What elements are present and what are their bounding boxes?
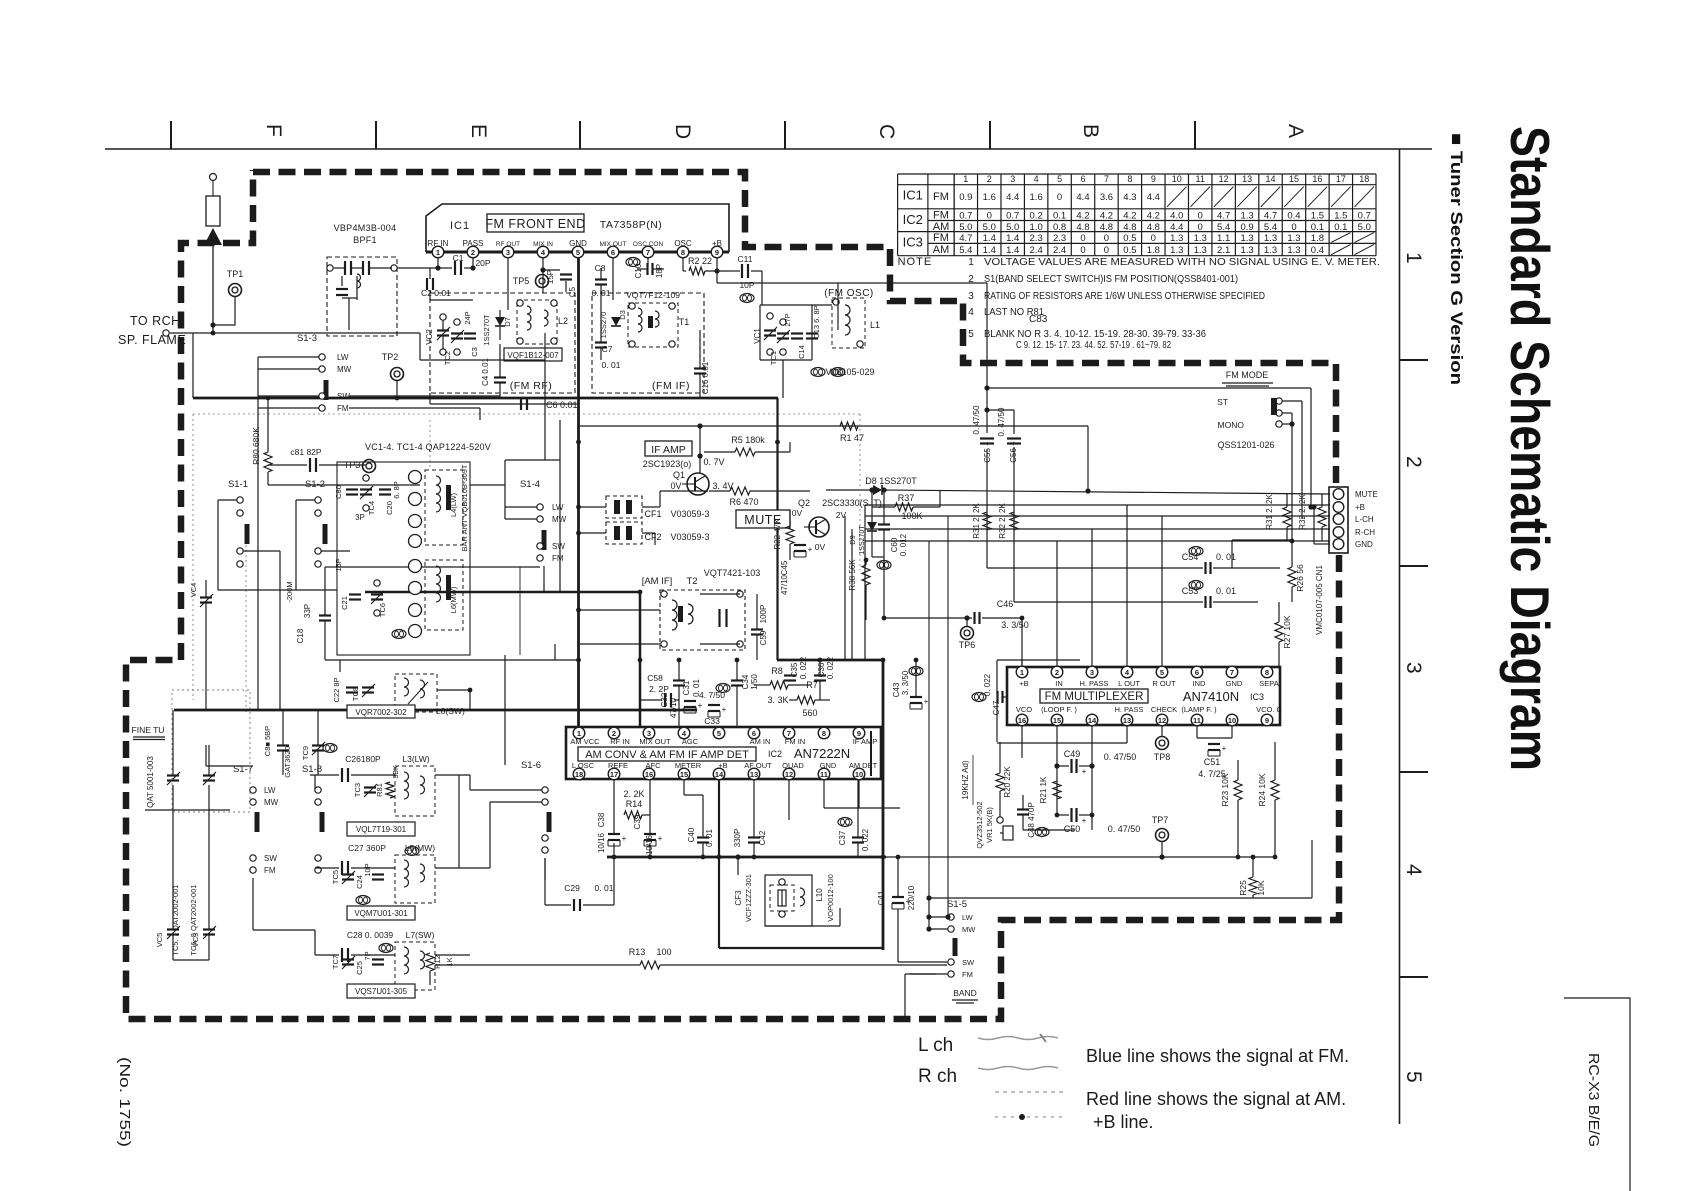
svg-text:FM MULTIPLEXER: FM MULTIPLEXER	[1045, 691, 1144, 703]
svg-text:R2 22: R2 22	[688, 256, 712, 266]
svg-text:Standard Schematic Diagram: Standard Schematic Diagram	[1499, 126, 1561, 771]
svg-text:S1(BAND SELECT SWITCH)IS FM PO: S1(BAND SELECT SWITCH)IS FM POSITION(QSS…	[984, 274, 1238, 285]
wire s1-3 right2	[349, 407, 480, 409]
svg-text:VQR7002-302: VQR7002-302	[355, 708, 407, 717]
wire	[206, 765, 253, 767]
tuning gang contacts	[409, 471, 422, 484]
svg-text:17: 17	[1336, 174, 1346, 184]
svg-text:TC4: TC4	[367, 501, 376, 515]
svg-text:4. 7/50: 4. 7/50	[699, 690, 725, 700]
svg-text:NOTE: NOTE	[898, 256, 933, 268]
coil L4 bar antenna	[425, 470, 463, 545]
svg-text:5: 5	[1057, 174, 1062, 184]
svg-text:47/10: 47/10	[780, 574, 789, 595]
svg-text:R37: R37	[898, 493, 915, 503]
svg-text:QSS1201-026: QSS1201-026	[1217, 440, 1274, 450]
svg-text:0. 47/50: 0. 47/50	[1104, 752, 1137, 762]
svg-text:VC1-4. TC1-4 QAP1224-520V: VC1-4. TC1-4 QAP1224-520V	[365, 442, 491, 452]
wire	[1087, 426, 1089, 491]
svg-text:16: 16	[1018, 716, 1026, 725]
transformer L2	[517, 300, 557, 344]
svg-text:AN7222N: AN7222N	[794, 746, 850, 761]
pin 10 IC2	[853, 768, 865, 780]
pin 3 IC3	[1086, 666, 1098, 678]
svg-text:+: +	[698, 701, 703, 710]
svg-text:10P: 10P	[739, 280, 754, 290]
svg-text:+: +	[658, 834, 663, 843]
svg-text:GND: GND	[820, 761, 837, 770]
svg-text:16: 16	[1312, 174, 1322, 184]
pin 10 IC3	[1226, 714, 1238, 726]
svg-text:4.2: 4.2	[1100, 210, 1113, 221]
svg-text:4.8: 4.8	[1076, 222, 1089, 233]
wire left low	[172, 710, 174, 775]
svg-text:5: 5	[576, 248, 580, 257]
svg-text:1.3: 1.3	[1170, 245, 1183, 256]
wire s1-1	[218, 499, 237, 501]
wire s1-3 right	[349, 395, 500, 397]
filter CF1 V03059-3	[606, 496, 642, 518]
FM FRONT END label box	[487, 214, 584, 232]
oval pad	[392, 630, 406, 639]
svg-text:R20 22K: R20 22K	[1003, 766, 1012, 798]
svg-text:R-CH: R-CH	[1355, 528, 1375, 537]
svg-text:IND: IND	[1193, 679, 1207, 688]
svg-text:12: 12	[1219, 174, 1229, 184]
svg-text:0: 0	[1057, 192, 1062, 203]
svg-text:C8■ 5BP: C8■ 5BP	[263, 726, 272, 756]
wire am det	[858, 780, 860, 808]
svg-text:TO RCH: TO RCH	[130, 314, 181, 328]
svg-text:S1-3: S1-3	[297, 333, 317, 344]
svg-text:L10: L10	[815, 888, 824, 902]
svg-text:(FM RF): (FM RF)	[510, 380, 553, 392]
trimmer TC2	[454, 319, 460, 325]
svg-text:4.8: 4.8	[1147, 222, 1160, 233]
IF AMP label box	[645, 441, 692, 456]
pin 15 IC2	[678, 768, 690, 780]
svg-text:L1: L1	[870, 320, 880, 330]
svg-text:15: 15	[680, 770, 688, 779]
svg-text:560: 560	[802, 708, 817, 718]
svg-text:LW: LW	[264, 786, 276, 795]
wire bold	[718, 774, 720, 948]
svg-text:R80 680K: R80 680K	[251, 427, 261, 465]
pin 9 IC3	[1261, 714, 1273, 726]
svg-text:C10: C10	[634, 263, 643, 278]
svg-text:VQT7F12-109: VQT7F12-109	[626, 290, 680, 300]
svg-text:4.4: 4.4	[1170, 222, 1183, 233]
svg-text:0. 022: 0. 022	[799, 656, 808, 679]
svg-text:2: 2	[987, 174, 992, 184]
svg-text:7: 7	[1230, 668, 1234, 677]
wire pin4 down	[542, 258, 544, 270]
FM RF section dashed box	[430, 293, 575, 393]
svg-text:C83: C83	[1029, 314, 1048, 325]
svg-text:AFC: AFC	[646, 761, 662, 770]
svg-text:0. 01: 0. 01	[602, 360, 621, 370]
svg-text:C43: C43	[892, 682, 901, 697]
svg-text:L8(SW): L8(SW)	[436, 706, 465, 716]
dotted line	[245, 545, 247, 712]
frame tick	[579, 121, 581, 149]
svg-text:2. 2P: 2. 2P	[649, 684, 669, 694]
svg-text:Q2: Q2	[798, 498, 810, 508]
svg-text:TC7: TC7	[331, 955, 340, 969]
wire	[173, 959, 209, 961]
svg-text:SW: SW	[962, 958, 975, 967]
svg-text:C14: C14	[797, 345, 806, 359]
svg-text:R8: R8	[771, 666, 783, 676]
svg-text:C37: C37	[838, 830, 847, 845]
wire	[544, 333, 546, 460]
wire	[886, 856, 1275, 858]
svg-text:SW: SW	[264, 854, 277, 863]
svg-text:R23 10K: R23 10K	[1220, 773, 1230, 806]
svg-text:15P: 15P	[546, 270, 555, 284]
pin 3 IC2	[643, 727, 655, 739]
svg-text:MIX OUT: MIX OUT	[599, 241, 626, 248]
svg-text:IC1: IC1	[903, 188, 923, 203]
svg-text:Q1: Q1	[673, 470, 685, 480]
svg-text:15P: 15P	[334, 558, 343, 571]
svg-text:0. 022: 0. 022	[861, 828, 870, 851]
wire s1-4	[505, 506, 537, 508]
wire	[504, 655, 506, 765]
frame top border line	[105, 148, 1432, 150]
svg-text:5: 5	[968, 329, 974, 340]
svg-text:1.3: 1.3	[1240, 233, 1253, 244]
svg-text:IC1: IC1	[450, 220, 470, 232]
label VQF1B12-007	[504, 348, 562, 361]
svg-text:14: 14	[1266, 174, 1276, 184]
svg-text:1.0: 1.0	[1030, 222, 1043, 233]
svg-text:MIX IN: MIX IN	[533, 241, 553, 248]
svg-text:D7: D7	[503, 317, 512, 327]
svg-text:S1-6: S1-6	[521, 760, 541, 771]
oval pads	[831, 368, 845, 377]
svg-text:5.4: 5.4	[959, 245, 972, 256]
wire +B right	[716, 271, 718, 283]
svg-text:0.7: 0.7	[959, 210, 972, 221]
svg-text:FM FRONT END: FM FRONT END	[485, 217, 585, 231]
wire osc cluster	[761, 271, 763, 305]
svg-text:C80: C80	[334, 485, 343, 499]
svg-text:15: 15	[1289, 174, 1299, 184]
svg-text:3. 3K: 3. 3K	[767, 695, 788, 705]
coil L8 SW	[395, 674, 437, 712]
svg-text:(No. 1755): (No. 1755)	[116, 1057, 133, 1147]
wire	[192, 333, 194, 398]
voltage table	[898, 174, 1376, 256]
svg-text:S1-8: S1-8	[302, 764, 322, 775]
svg-text:6: 6	[1081, 174, 1086, 184]
svg-text:0: 0	[1080, 245, 1085, 256]
svg-text:IC3: IC3	[1250, 692, 1264, 702]
svg-text:C38: C38	[597, 812, 606, 827]
pin 8 IC3	[1261, 666, 1273, 678]
frame tick	[1400, 771, 1429, 773]
svg-text:FM: FM	[933, 191, 949, 203]
svg-text:FM IN: FM IN	[785, 737, 805, 746]
svg-text:1.3: 1.3	[1264, 233, 1277, 244]
svg-text:5.0: 5.0	[1358, 222, 1371, 233]
svg-text:D: D	[671, 124, 694, 139]
svg-text:R26 56: R26 56	[1295, 564, 1305, 592]
svg-text:VC2: VC2	[425, 329, 434, 345]
wire pin6 down	[612, 264, 614, 300]
svg-text:5.0: 5.0	[1006, 222, 1019, 233]
svg-text:4.8: 4.8	[1100, 222, 1113, 233]
pin 5 IC3	[1156, 666, 1168, 678]
svg-text:3: 3	[1402, 662, 1425, 674]
svg-text:IC2: IC2	[903, 212, 923, 227]
svg-text:BAR ANT VQB010B-309T: BAR ANT VQB010B-309T	[460, 464, 469, 551]
svg-text:SEPA: SEPA	[1259, 679, 1278, 688]
wire BPF1 to C1	[397, 267, 438, 269]
label VQS7U01-305 box	[347, 984, 415, 998]
svg-text:1.3: 1.3	[1194, 233, 1207, 244]
svg-text:TC1: TC1	[769, 351, 778, 365]
wire	[579, 643, 661, 645]
svg-text:R21 1K: R21 1K	[1039, 776, 1048, 803]
svg-text:2.4: 2.4	[1053, 245, 1066, 256]
svg-text:L-CH: L-CH	[1355, 515, 1374, 524]
svg-text:D8 1SS270T: D8 1SS270T	[865, 476, 917, 486]
wire bold	[365, 591, 640, 594]
svg-text:1.6: 1.6	[983, 192, 996, 203]
svg-text:MONO: MONO	[1218, 420, 1245, 430]
svg-text:0.9: 0.9	[959, 192, 972, 203]
svg-text:FM MODE: FM MODE	[1226, 370, 1269, 380]
svg-text:GND: GND	[569, 239, 587, 248]
svg-text:1.3: 1.3	[1264, 245, 1277, 256]
pin 1 IC1 RF IN	[432, 246, 444, 258]
pin 2 IC3	[1051, 666, 1063, 678]
svg-text:4.4: 4.4	[1006, 192, 1019, 203]
svg-text:1: 1	[1402, 252, 1425, 264]
trimmer TC6	[374, 580, 380, 586]
svg-text:33P: 33P	[303, 604, 312, 618]
wire bold	[776, 398, 778, 660]
svg-text:TP5: TP5	[513, 276, 530, 286]
capacitor C59 100P	[751, 628, 763, 630]
svg-text:2.3: 2.3	[1053, 233, 1066, 244]
svg-text:+: +	[1082, 767, 1087, 776]
svg-text:TC6: TC6	[378, 603, 387, 617]
svg-text:0. 7V: 0. 7V	[703, 457, 724, 467]
svg-text:BPF1: BPF1	[353, 235, 377, 245]
svg-text:0: 0	[1104, 233, 1109, 244]
svg-text:0.1: 0.1	[1053, 210, 1066, 221]
AM CONV label box	[578, 747, 756, 761]
svg-text:0: 0	[1151, 233, 1156, 244]
svg-text:1SS270: 1SS270	[599, 312, 608, 339]
svg-text:13: 13	[1123, 716, 1131, 725]
wire	[420, 359, 545, 361]
svg-text:330P: 330P	[733, 829, 742, 848]
model bracket line	[1564, 998, 1630, 1191]
svg-text:Blue line shows the signal at: Blue line shows the signal at FM.	[1086, 1046, 1349, 1066]
svg-text:1.8: 1.8	[1311, 233, 1324, 244]
FM MULTIPLEXER label box	[1040, 689, 1148, 703]
test point TP8	[1156, 737, 1169, 750]
svg-text:C40: C40	[687, 827, 696, 842]
legend squiggle L	[978, 1037, 1058, 1040]
svg-text:1: 1	[968, 257, 974, 268]
svg-text:RF IN: RF IN	[428, 239, 449, 248]
svg-text:BLANK NO R 3. 4. 10-12. 15-19.: BLANK NO R 3. 4. 10-12. 15-19. 28-30. 39…	[984, 329, 1206, 340]
pin 6 IC2	[748, 727, 760, 739]
svg-text:L2: L2	[558, 316, 568, 326]
frame tick	[1400, 565, 1429, 567]
svg-text:12: 12	[1158, 716, 1166, 725]
svg-text:FM: FM	[962, 970, 973, 979]
svg-text:B: B	[1079, 124, 1102, 138]
svg-text:+B: +B	[712, 239, 722, 248]
table blank diagonal slashes	[1167, 187, 1374, 255]
svg-text:C45: C45	[780, 560, 789, 575]
frame right border line	[1399, 149, 1401, 1124]
svg-text:1.4: 1.4	[983, 245, 996, 256]
svg-text:1SS270T: 1SS270T	[482, 314, 491, 346]
svg-text:R1 47: R1 47	[840, 433, 864, 443]
svg-text:AGC: AGC	[682, 737, 699, 746]
svg-text:AM: AM	[933, 244, 950, 256]
svg-text:PASS: PASS	[463, 239, 484, 248]
wire mix	[542, 270, 544, 293]
capacitor C20	[379, 488, 391, 490]
svg-text:13: 13	[750, 770, 758, 779]
svg-text:+B line.: +B line.	[1093, 1112, 1154, 1132]
pin 15 IC3	[1051, 714, 1063, 726]
svg-text:4: 4	[1402, 864, 1425, 876]
svg-text:IC2: IC2	[768, 749, 782, 759]
svg-text:18: 18	[575, 770, 583, 779]
svg-text:C21: C21	[340, 596, 349, 610]
wire antenna down	[212, 245, 214, 333]
pin 13 IC2	[748, 768, 760, 780]
svg-text:0.1: 0.1	[1311, 222, 1324, 233]
svg-text:(FM IF): (FM IF)	[652, 380, 690, 392]
svg-text:3BK: 3BK	[393, 765, 400, 779]
svg-text:T1: T1	[679, 317, 690, 327]
svg-text:1.1: 1.1	[1217, 233, 1230, 244]
wire mute line to CN1	[882, 490, 1330, 494]
frame tick	[989, 121, 991, 149]
svg-text:19KHZ Ad): 19KHZ Ad)	[961, 760, 970, 799]
svg-text:1.4: 1.4	[1006, 245, 1019, 256]
pin 5 IC2	[713, 727, 725, 739]
svg-text:FM: FM	[337, 404, 349, 413]
svg-text:FM: FM	[933, 209, 949, 221]
svg-text:9: 9	[1151, 174, 1156, 184]
svg-text:TC9: TC9	[301, 746, 310, 760]
svg-text:0: 0	[987, 210, 992, 221]
wire	[505, 459, 560, 461]
svg-text:C59: C59	[759, 630, 768, 645]
svg-text:AF OUT: AF OUT	[744, 761, 772, 770]
svg-text:8: 8	[681, 248, 685, 257]
svg-text:0.7: 0.7	[1006, 210, 1019, 221]
svg-text:4.3: 4.3	[1123, 192, 1136, 203]
svg-text:L5(MW): L5(MW)	[405, 843, 435, 853]
svg-text:0.5: 0.5	[1123, 233, 1136, 244]
svg-text:11: 11	[820, 770, 828, 779]
svg-text:(FM OSC): (FM OSC)	[824, 288, 874, 299]
svg-text:R OUT: R OUT	[1152, 679, 1176, 688]
svg-text:TP8: TP8	[1154, 752, 1171, 762]
svg-text:+: +	[622, 834, 627, 843]
svg-text:TC5: TC5	[331, 870, 340, 884]
svg-text:C5: C5	[568, 286, 577, 297]
svg-text:2.3: 2.3	[1030, 233, 1043, 244]
FM IF section dashed box	[592, 293, 704, 393]
svg-text:TC8: TC8	[351, 687, 360, 701]
svg-text:0.4: 0.4	[1287, 210, 1300, 221]
pin 6 IC3	[1191, 666, 1203, 678]
svg-text:8: 8	[1265, 668, 1269, 677]
svg-text:100P: 100P	[759, 605, 768, 624]
svg-text:REFE: REFE	[608, 761, 628, 770]
wire s1-5	[929, 916, 948, 918]
svg-text:FM: FM	[552, 554, 564, 563]
svg-text:C29: C29	[564, 883, 580, 893]
svg-text:L3(LW): L3(LW)	[402, 754, 429, 764]
svg-text:ST: ST	[1217, 397, 1228, 407]
svg-text:R32 2. 2K: R32 2. 2K	[1298, 494, 1307, 530]
svg-text:4.7: 4.7	[1217, 210, 1230, 221]
svg-text:VOP0012-100: VOP0012-100	[826, 874, 835, 922]
svg-text:1.3: 1.3	[1240, 245, 1253, 256]
svg-text:1: 1	[436, 248, 440, 257]
svg-text:QAT 5001-003: QAT 5001-003	[146, 756, 155, 808]
svg-text:0: 0	[1198, 210, 1203, 221]
svg-text:C 9. 12. 15- 17. 23. 44. 52. 5: C 9. 12. 15- 17. 23. 44. 52. 57-19 . 61~…	[1016, 340, 1171, 351]
svg-text:FM: FM	[264, 866, 276, 875]
svg-text:C: C	[875, 124, 898, 139]
svg-text:MIX OUT: MIX OUT	[639, 737, 671, 746]
wire bold	[777, 659, 883, 662]
svg-text:8: 8	[1127, 174, 1132, 184]
svg-text:13: 13	[1242, 174, 1252, 184]
op-amp U IC3 AN7410N box	[1007, 667, 1280, 725]
svg-text:C26180P: C26180P	[345, 754, 381, 764]
svg-text:R25: R25	[1238, 880, 1248, 896]
svg-text:VQL7T19-301: VQL7T19-301	[356, 825, 407, 834]
wire	[519, 567, 521, 655]
wire vertical right of IC2	[928, 541, 930, 898]
svg-text:V03059-3: V03059-3	[670, 532, 709, 542]
capacitor C16 0.01	[694, 367, 706, 369]
pin 7 IC2	[783, 727, 795, 739]
svg-text:1.3: 1.3	[1194, 245, 1207, 256]
svg-text:VC5: VC5	[155, 933, 164, 948]
svg-text:47/10: 47/10	[669, 697, 678, 718]
coil L10 VOP0012-100	[800, 888, 805, 906]
wire	[419, 333, 421, 360]
svg-text:0V: 0V	[792, 508, 803, 518]
svg-text:TC3: TC3	[353, 783, 362, 797]
frame tick	[784, 121, 786, 149]
connector CN1 VMC0107-005	[1329, 487, 1348, 553]
wire bold	[882, 660, 885, 950]
pin 1 IC2	[573, 727, 585, 739]
svg-text:A: A	[1284, 124, 1307, 138]
wire bold	[607, 856, 886, 859]
svg-text:6: 6	[1195, 668, 1199, 677]
wire	[788, 780, 790, 820]
